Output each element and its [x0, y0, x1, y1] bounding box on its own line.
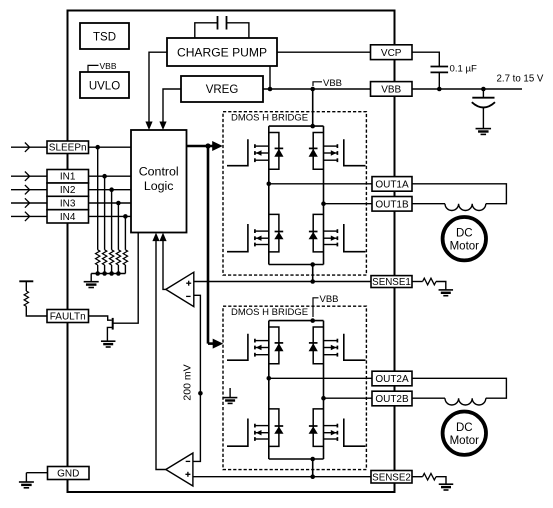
svg-text:IN1: IN1: [60, 172, 76, 183]
wire VREG to control logic: [163, 89, 181, 123]
arrow input IN4: [25, 212, 30, 221]
block UVLO: [80, 72, 129, 98]
wire FAULTn pull-up: [26, 306, 47, 316]
node 200 mV: [198, 391, 203, 396]
wire VCP to pump capacitor: [412, 52, 439, 66]
ground input pulldowns: [84, 281, 99, 283]
node pulldown junction: [95, 271, 100, 276]
svg-text:200 mV: 200 mV: [182, 364, 194, 400]
pin IN4: [47, 210, 89, 223]
svg-text:Motor: Motor: [450, 241, 480, 253]
wire IN4 resistor to common: [124, 265, 126, 274]
node pulldown junction: [116, 271, 121, 276]
label net VBB bridge 2: [313, 298, 319, 317]
svg-text:DMOS H BRIDGE: DMOS H BRIDGE: [231, 113, 308, 124]
resistor pulldown IN1: [102, 250, 106, 265]
wire IN2 to control logic: [89, 189, 132, 191]
transistor low-side right Q24 with body diode: [344, 419, 366, 447]
wire gate control to bridge 1 (thick): [187, 145, 214, 148]
wire input SLEEPn: [11, 146, 47, 148]
pin OUT2B: [372, 391, 412, 406]
wire input IN4: [11, 215, 47, 217]
transistor low-side right Q14 with body diode: [344, 224, 366, 252]
pin OUT1B: [372, 197, 412, 212]
wire IN1 pulldown drop: [104, 176, 106, 250]
wire left rail bridge 2: [268, 321, 270, 459]
node VBB line bridge-1 tap: [310, 87, 315, 92]
wire charge pump to VCP: [277, 51, 371, 53]
capacitor 0.1 uF reservoir: [431, 66, 449, 68]
wire IN2 resistor to common: [111, 265, 113, 274]
supply bar VBB pull-up: [19, 280, 33, 282]
wire top rail bridge 2: [269, 320, 324, 322]
wire OUT1B to motor 1 winding: [412, 203, 445, 205]
resistor pulldown SLEEPn: [95, 250, 99, 265]
wire OUT2B to motor 2 winding: [412, 397, 445, 399]
node IN3 pulldown tap: [116, 201, 121, 206]
ground sense 1: [439, 289, 454, 291]
dashed box DMOS H BRIDGE 2: [223, 306, 366, 469]
transistor FAULT open-drain: [112, 318, 114, 330]
transistor high-side left Q21 with body diode: [227, 334, 248, 361]
svg-text:VBB: VBB: [381, 85, 401, 96]
svg-text:DMOS H BRIDGE: DMOS H BRIDGE: [231, 307, 308, 318]
plus input comparator 2: [185, 473, 190, 475]
wire shunt 1 to ground: [436, 282, 446, 290]
wire IN1 resistor to common: [104, 265, 106, 274]
svg-text:IN2: IN2: [60, 185, 76, 196]
wire input IN1: [11, 175, 47, 177]
minus input comparator 2: [186, 460, 191, 462]
ground bulk capacitor: [476, 128, 492, 130]
wire SLEEPn pulldown drop: [97, 147, 99, 250]
node VBB rail junction bridge 2: [310, 318, 315, 323]
transistor high-side left Q11 with body diode: [227, 139, 248, 166]
svg-text:UVLO: UVLO: [89, 80, 120, 92]
node SLEEPn pulldown tap: [95, 145, 100, 150]
node IN4 pulldown tap: [123, 214, 128, 219]
wire FAULT source: [107, 327, 112, 341]
plus input comparator 1: [186, 282, 191, 284]
transistor low-side left Q13 with body diode: [227, 224, 248, 252]
wire top rail bridge 1: [269, 125, 324, 127]
resistor pulldown IN3: [116, 250, 120, 265]
wire GND pin: [26, 472, 47, 474]
wire SLEEPn to control logic: [89, 146, 132, 148]
wire VBB supply line: [263, 88, 371, 90]
op-amp comparator 2: [166, 453, 193, 486]
wire bottom rail bridge 2: [269, 458, 324, 460]
wire bottom rail bridge 1: [269, 264, 324, 266]
node pulldown junction: [109, 271, 114, 276]
node bottom rail junction bridge 1: [310, 262, 315, 267]
node VBB-cap junction: [437, 87, 442, 92]
wire charge pump top cap left stub: [195, 23, 218, 38]
pin SENSE1: [371, 276, 412, 288]
pin VCP: [371, 45, 413, 60]
motor M2 DC Motor: [443, 412, 486, 455]
wire comparator 2 output: [156, 239, 166, 470]
wire left rail bridge 1: [268, 126, 270, 264]
wire bridge 2 to SENSE2: [312, 459, 314, 477]
arrow input IN2: [25, 185, 30, 194]
svg-text:OUT1B: OUT1B: [375, 200, 409, 211]
transistor low-side left Q23 with body diode: [227, 419, 248, 447]
label net VBB UVLO: [88, 65, 99, 72]
svg-text:OUT1A: OUT1A: [375, 180, 409, 191]
svg-text:Control: Control: [139, 165, 179, 179]
wire SENSE1 line: [194, 281, 371, 283]
wire SENSE2 line: [193, 476, 371, 478]
wire OUT1A to motor 1: [412, 184, 506, 204]
resistor pulldown IN4: [123, 250, 127, 265]
pin IN1: [47, 170, 89, 184]
wire IN2 pulldown drop: [111, 190, 113, 250]
arrow input SLEEPn: [25, 143, 30, 152]
wire charge pump top cap right stub: [227, 23, 249, 38]
label net VBB bridge 1: [313, 82, 322, 86]
svg-text:TSD: TSD: [93, 31, 116, 43]
pin IN2: [47, 183, 89, 196]
wire pull-up to supply: [25, 282, 27, 291]
svg-text:SLEEPn: SLEEPn: [49, 143, 87, 154]
wire right rail bridge 1: [323, 126, 325, 264]
minus input comparator 1: [186, 295, 191, 297]
ground bridge 2 tab: [229, 388, 231, 397]
svg-text:CHARGE PUMP: CHARGE PUMP: [177, 45, 267, 59]
wire IN4 pulldown drop: [124, 216, 126, 249]
capacitor charge pump flying: [217, 16, 219, 30]
wire IN3 resistor to common: [117, 265, 119, 274]
node bottom rail junction bridge 2: [310, 457, 315, 462]
node bulk capacitor junction: [481, 87, 486, 92]
arrow input IN3: [25, 198, 30, 207]
wire IN1 to control logic: [89, 175, 132, 177]
svg-text:DC: DC: [456, 227, 473, 239]
wire OUT1A: [269, 183, 372, 185]
wire SENSE1 to shunt: [412, 281, 423, 283]
svg-text:VREG: VREG: [206, 84, 239, 96]
block CHARGE PUMP: [167, 38, 277, 66]
svg-text:0.1 µF: 0.1 µF: [450, 63, 478, 74]
wire charge pump feed from VBB: [269, 66, 271, 89]
pin VBB: [371, 82, 413, 97]
node VBB rail junction bridge 1: [310, 124, 315, 129]
node SENSE1 bridge tap: [310, 279, 315, 284]
wire bridge 1 to SENSE1: [312, 265, 314, 282]
block VREG: [181, 76, 263, 102]
wire charge pump to control logic: [149, 52, 167, 122]
svg-text:FAULTn: FAULTn: [50, 312, 86, 323]
svg-text:IN3: IN3: [60, 198, 76, 209]
wire VBB rail to bridge 1: [312, 89, 314, 126]
ground FAULT transistor: [101, 340, 116, 342]
wire SLEEPn resistor to common: [97, 265, 99, 274]
wire SENSE2 to shunt: [412, 476, 423, 478]
wire FAULT drain: [113, 233, 139, 324]
svg-text:IN4: IN4: [60, 212, 76, 223]
resistor pulldown IN2: [109, 250, 113, 265]
ground GND pin: [19, 481, 34, 483]
svg-text:VCP: VCP: [381, 48, 402, 59]
node OUT1A junction: [267, 182, 272, 187]
pin SENSE2: [371, 471, 412, 484]
wire comparator 1 output: [163, 239, 166, 289]
wire capacitor to VBB line: [438, 72, 440, 89]
transistor high-side right Q12 with body diode: [344, 139, 366, 166]
pin FAULTn: [47, 310, 89, 323]
svg-text:SENSE1: SENSE1: [372, 277, 411, 288]
motor M1 DC Motor: [443, 217, 486, 260]
wire pulldown to ground: [90, 274, 92, 282]
outer IC boundary box: [68, 11, 395, 493]
wire gate control down (thick): [207, 146, 210, 344]
svg-text:GND: GND: [57, 469, 79, 480]
svg-text:VBB: VBB: [320, 294, 339, 305]
op-amp comparator 1: [166, 272, 194, 306]
svg-text:2.7 to 15 V: 2.7 to 15 V: [497, 74, 544, 85]
wire pulldown common node: [91, 273, 125, 275]
wire OUT2A to motor 2: [412, 378, 506, 398]
resistor FAULTn pull-up: [24, 291, 28, 306]
wire shunt 2 to ground: [436, 477, 446, 484]
block TSD: [80, 23, 129, 49]
capacitor bulk electrolytic: [482, 89, 484, 98]
node SENSE2 bridge tap: [310, 474, 315, 479]
svg-text:OUT2B: OUT2B: [375, 394, 409, 405]
pin SLEEPn: [47, 141, 89, 154]
transistor high-side right Q22 with body diode: [344, 334, 366, 361]
wire FAULTn to transistor gate: [89, 316, 112, 320]
wire right rail bridge 2: [323, 321, 325, 459]
node charge pump VBB junction: [268, 87, 273, 92]
node IN2 pulldown tap: [109, 187, 114, 192]
wire IN3 pulldown drop: [117, 203, 119, 250]
svg-text:VBB: VBB: [323, 78, 342, 89]
wire input IN2: [11, 189, 47, 191]
wire input IN3: [11, 202, 47, 204]
wire OUT2B: [324, 397, 373, 399]
node OUT2A junction: [267, 376, 272, 381]
node IN1 pulldown tap: [102, 174, 107, 179]
inductor motor 1 winding: [445, 204, 486, 211]
node pulldown junction: [102, 271, 107, 276]
pin GND: [48, 467, 90, 480]
pin IN3: [47, 196, 89, 209]
svg-text:VBB: VBB: [100, 61, 117, 71]
ground sense 2: [439, 483, 454, 485]
svg-text:Logic: Logic: [144, 179, 174, 193]
node OUT2B junction: [321, 396, 326, 401]
pin OUT2A: [372, 371, 412, 386]
block Control Logic U1: [131, 130, 187, 233]
wire gate control to bridge 2 (thick): [208, 342, 214, 345]
wire IN3 to control logic: [89, 202, 132, 204]
arrow input IN1: [25, 172, 30, 181]
node OUT1B junction: [321, 201, 326, 206]
inductor motor 2 winding: [445, 398, 486, 405]
wire OUT2A: [269, 377, 372, 379]
svg-text:Motor: Motor: [450, 435, 480, 447]
pin OUT1A: [372, 177, 412, 192]
resistor sense 1 shunt: [423, 278, 436, 285]
node gate control elbow: [205, 143, 210, 148]
wire IN4 to control logic: [89, 215, 132, 217]
svg-text:DC: DC: [456, 422, 473, 434]
resistor sense 2 shunt: [423, 473, 436, 480]
wire GND drop: [25, 473, 27, 482]
wire OUT1B: [324, 203, 373, 205]
dashed box DMOS H BRIDGE 1: [223, 112, 366, 275]
svg-text:OUT2A: OUT2A: [375, 374, 409, 385]
svg-text:SENSE2: SENSE2: [372, 473, 411, 484]
wire 200 mV reference: [193, 295, 201, 461]
